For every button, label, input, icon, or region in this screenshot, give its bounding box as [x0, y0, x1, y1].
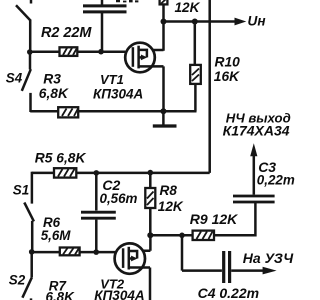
resistor R5 body: [54, 168, 76, 177]
svg-text:Uн: Uн: [248, 13, 266, 28]
long rail from top to R5/R8 row: [208, 0, 211, 173]
VT2 gate bar: [122, 248, 125, 268]
node C: [161, 19, 167, 25]
svg-text:VT1: VT1: [100, 72, 124, 87]
VT1 channel bar: [137, 46, 140, 69]
wire S3 to node A: [29, 20, 32, 54]
VT1 substrate arrow: [139, 56, 142, 59]
VT2 drain lead internal: [129, 251, 137, 259]
capacitor C1 bottom lead: [101, 13, 104, 52]
capacitor C4 plates: [224, 251, 230, 283]
VT1 gate bar: [132, 47, 135, 67]
VT2 drain wire: [143, 235, 151, 250]
node D: [192, 19, 198, 25]
arrow Uн: [235, 18, 247, 26]
resistor R8 body: [145, 188, 155, 208]
wire R5/C2/R8 row: [32, 172, 210, 175]
capacitor C2 plates: [81, 212, 116, 218]
resistor R4 12K stub at top edge: [160, 0, 168, 4]
svg-text:S1: S1: [13, 183, 29, 198]
svg-text:КП304А: КП304А: [94, 288, 144, 300]
wire node J down to C4: [182, 235, 222, 270]
svg-text:12K: 12K: [158, 199, 184, 214]
resistor R2 body: [60, 47, 78, 56]
switch S2 blade: [22, 277, 32, 297]
svg-text:R3: R3: [43, 71, 61, 86]
VT2 source wire to bottom edge: [143, 268, 150, 300]
VT1 source lead internal: [139, 65, 153, 68]
svg-text:R8: R8: [160, 183, 178, 198]
label C1 fragment (cut at top edge): [116, 0, 138, 2]
svg-text:S4: S4: [6, 71, 23, 86]
VT1 drain wire: [153, 22, 164, 51]
svg-text:16K: 16K: [214, 69, 240, 84]
wire R6 row: [32, 251, 116, 254]
svg-text:R5 6,8K: R5 6,8K: [35, 151, 87, 166]
node G (R6/S1/S2): [29, 249, 35, 255]
resistor R8 bottom lead: [149, 208, 152, 235]
svg-text:12K: 12K: [175, 0, 201, 15]
resistor R9 body: [193, 231, 214, 240]
capacitor C3 arrow lead to НЧ выход: [253, 156, 256, 195]
node I (R8/R9/VT2 drain): [147, 232, 153, 238]
switch S3 top contact tick: [30, 0, 33, 4]
VT2 substrate arrow: [129, 257, 132, 260]
transistor VT2 body: [115, 243, 145, 273]
wire C4 to arrow На УЗЧ: [231, 269, 263, 272]
svg-text:R2 22M: R2 22M: [41, 25, 92, 41]
switch S1 blade: [24, 203, 34, 222]
svg-text:R10: R10: [215, 55, 241, 70]
node E (C2 top): [94, 170, 100, 176]
node source VT1 / ground: [160, 108, 166, 114]
capacitor C2 top lead: [95, 173, 98, 211]
switch S2 upper wire: [30, 252, 33, 277]
wire R2 row: [30, 50, 126, 53]
switch S4 lower wire: [29, 93, 32, 112]
switch S4 upper wire: [29, 52, 32, 69]
wire R3 row: [30, 110, 196, 113]
svg-text:На УЗЧ: На УЗЧ: [243, 250, 294, 266]
capacitor C3 plates: [233, 196, 275, 202]
svg-text:6,8K: 6,8K: [46, 290, 76, 300]
switch S3 blade: [16, 5, 31, 20]
wire R9 row: [150, 234, 255, 237]
R4 lead to node C: [162, 4, 165, 21]
VT2 source lead internal: [129, 266, 143, 269]
svg-text:0,22m: 0,22m: [257, 173, 295, 188]
VT1 source wire: [152, 66, 164, 111]
wire top rail to Uн arrow: [164, 20, 236, 23]
svg-text:КП304А: КП304А: [93, 87, 143, 102]
switch S1 upper wire: [31, 172, 34, 204]
switch S1 lower wire: [31, 221, 34, 252]
transistor VT1 body: [125, 43, 155, 73]
svg-text:C4 0.22m: C4 0.22m: [198, 285, 259, 300]
wire R9 to C3 bottom: [254, 203, 257, 237]
ground bar: [153, 124, 177, 127]
resistor R8 top lead: [149, 173, 152, 188]
capacitor C1 plates: [83, 6, 127, 12]
svg-text:0,56m: 0,56m: [100, 191, 138, 206]
ground lead: [162, 111, 165, 125]
resistor R6 body: [60, 248, 80, 256]
svg-text:R9 12K: R9 12K: [190, 211, 238, 227]
resistor R10 bottom lead: [194, 84, 197, 111]
node A: [27, 49, 33, 55]
svg-text:5,6М: 5,6М: [41, 228, 72, 243]
node H (C2 bottom / VT2 gate): [93, 249, 99, 255]
switch S4 blade: [22, 69, 31, 91]
node B (gate of VT1 / C1): [98, 49, 104, 55]
switch S2 bottom tick: [30, 298, 33, 300]
svg-text:К174ХА34: К174ХА34: [223, 123, 290, 139]
VT2 channel bar: [128, 247, 131, 270]
resistor R10 body: [190, 65, 201, 84]
capacitor C2 bottom lead: [95, 220, 98, 253]
svg-text:6,8K: 6,8K: [39, 86, 69, 101]
capacitor C1 top lead: [101, 0, 104, 5]
VT1 drain lead internal: [139, 50, 147, 58]
resistor R10 top lead: [194, 22, 197, 65]
svg-text:S2: S2: [9, 272, 26, 287]
resistor R3 body: [58, 107, 78, 117]
node J (C4 tap): [179, 233, 185, 239]
node F (R8 top): [148, 170, 154, 176]
